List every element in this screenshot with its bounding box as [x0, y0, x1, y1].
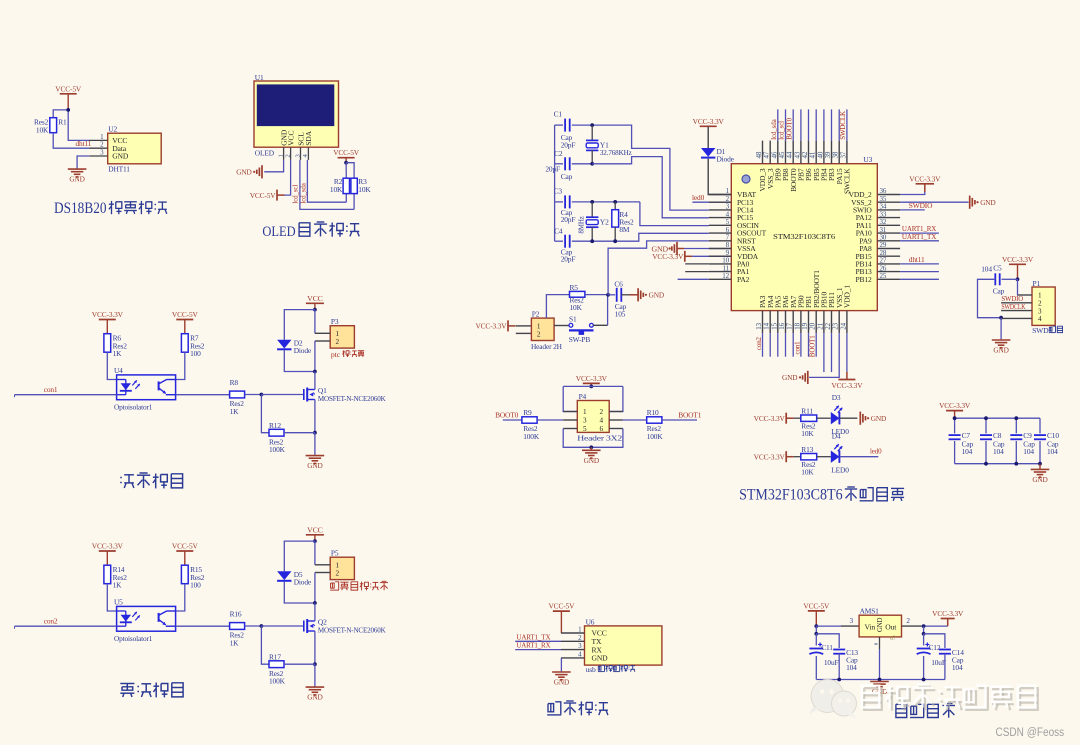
svg-text:6: 6 [600, 425, 604, 433]
svg-text:100K: 100K [647, 432, 664, 441]
svg-text:lcd_sda: lcd_sda [300, 182, 308, 203]
svg-text:VCC-3.3V: VCC-3.3V [754, 452, 786, 461]
svg-text:GND: GND [877, 617, 884, 632]
svg-text:3: 3 [1038, 307, 1042, 315]
svg-text:STM32F103C8T6: STM32F103C8T6 [739, 487, 843, 504]
svg-text:D4: D4 [832, 432, 841, 441]
svg-text:P2: P2 [532, 309, 540, 318]
svg-text:2: 2 [284, 154, 291, 157]
svg-text:GND: GND [1032, 475, 1047, 484]
svg-text:VCC-3.3V: VCC-3.3V [1002, 255, 1034, 264]
svg-text:C1: C1 [554, 110, 563, 119]
svg-text:C6: C6 [614, 280, 623, 289]
svg-text:R5: R5 [570, 283, 579, 292]
svg-text:led0: led0 [870, 447, 882, 455]
svg-text:GND: GND [236, 168, 251, 177]
svg-text:VCC-3.3V: VCC-3.3V [92, 310, 124, 319]
svg-text:U4: U4 [114, 366, 123, 375]
svg-text:Diode: Diode [717, 155, 735, 164]
svg-text:VCC-3.3V: VCC-3.3V [754, 414, 786, 423]
svg-text:SWCLK: SWCLK [843, 168, 852, 194]
svg-text:AMS1: AMS1 [860, 607, 880, 616]
svg-text:10K: 10K [801, 429, 814, 438]
svg-text:C12: C12 [929, 643, 941, 652]
svg-text:SWDCLK: SWDCLK [1001, 302, 1026, 311]
svg-text:con1: con1 [44, 385, 58, 394]
svg-text:10uF: 10uF [931, 658, 946, 667]
svg-text:1: 1 [1038, 292, 1042, 300]
svg-text:led0: led0 [692, 193, 705, 202]
svg-text:BOOT1: BOOT1 [678, 410, 702, 419]
svg-text:VCC-3.3V: VCC-3.3V [932, 609, 964, 618]
svg-text:104: 104 [1047, 447, 1058, 456]
svg-text:R16: R16 [230, 610, 242, 619]
svg-text:4: 4 [600, 417, 604, 425]
svg-text:GND: GND [69, 175, 84, 184]
svg-text:U5: U5 [114, 598, 123, 607]
svg-text:24: 24 [839, 322, 847, 329]
svg-text:VCC-3.3V: VCC-3.3V [475, 322, 507, 331]
svg-text:GND: GND [307, 461, 322, 470]
svg-text:GND: GND [782, 373, 797, 382]
svg-text:R9: R9 [523, 408, 532, 417]
svg-text:104: 104 [846, 663, 857, 672]
svg-text:VCC-5V: VCC-5V [250, 191, 277, 200]
svg-text:U2: U2 [108, 125, 117, 134]
svg-text:104: 104 [981, 264, 992, 273]
svg-text:VCC: VCC [286, 131, 295, 146]
svg-text:SW-PB: SW-PB [569, 335, 591, 344]
svg-text:2: 2 [537, 330, 541, 338]
svg-text:GND: GND [871, 414, 886, 423]
svg-text:25: 25 [880, 272, 887, 280]
svg-text:GND: GND [584, 456, 599, 465]
svg-text:2: 2 [1038, 300, 1042, 308]
svg-text:VCC: VCC [307, 525, 323, 534]
svg-text:100K: 100K [523, 432, 540, 441]
svg-text:UART1_RX: UART1_RX [516, 641, 551, 650]
svg-text:32.768KHz: 32.768KHz [600, 148, 633, 157]
svg-text:MOSFET-N-NCE2060K: MOSFET-N-NCE2060K [318, 625, 386, 634]
svg-text:BOOT0: BOOT0 [495, 410, 519, 419]
svg-text:OLED: OLED [262, 224, 295, 240]
svg-text:4: 4 [1038, 315, 1042, 323]
svg-text:VDD_1: VDD_1 [843, 285, 852, 308]
svg-text:12: 12 [722, 272, 729, 280]
svg-text:Optoisolator1: Optoisolator1 [114, 402, 153, 411]
svg-text:OLED: OLED [255, 149, 275, 158]
svg-text:20pF: 20pF [561, 215, 576, 224]
svg-text:VCC-5V: VCC-5V [803, 601, 830, 610]
svg-text:C5: C5 [993, 264, 1002, 273]
svg-text:VCC-3.3V: VCC-3.3V [576, 374, 608, 383]
svg-text:2: 2 [600, 408, 604, 416]
svg-text:10K: 10K [330, 185, 343, 194]
svg-text:32: 32 [880, 218, 887, 226]
svg-text:DS18B20: DS18B20 [54, 200, 107, 217]
svg-text:R12: R12 [269, 421, 281, 430]
svg-text:VCC-3.3V: VCC-3.3V [693, 117, 725, 126]
svg-text:usb: usb [586, 665, 596, 674]
svg-text:GND: GND [554, 678, 569, 687]
svg-text:C4: C4 [554, 227, 563, 236]
svg-text:P3: P3 [331, 317, 339, 326]
svg-text:lcd_scl: lcd_scl [292, 185, 300, 204]
svg-text:R8: R8 [230, 378, 239, 387]
svg-text:104: 104 [993, 447, 1004, 456]
svg-text:R10: R10 [647, 408, 659, 417]
svg-text:UART1_TX: UART1_TX [902, 232, 937, 241]
svg-text:D3: D3 [832, 393, 841, 402]
svg-text:Cap: Cap [561, 172, 573, 181]
svg-text:C11: C11 [821, 643, 833, 652]
svg-text:8M: 8M [619, 225, 630, 234]
svg-text:VCC: VCC [307, 294, 323, 303]
svg-text:GND: GND [307, 693, 322, 702]
svg-text:DHT11: DHT11 [108, 165, 130, 174]
svg-text:104: 104 [952, 663, 963, 672]
svg-text:10K: 10K [801, 467, 814, 476]
svg-text:SWDIO: SWDIO [909, 201, 933, 210]
svg-text:100K: 100K [269, 445, 286, 454]
svg-text:dht11: dht11 [909, 255, 925, 264]
svg-text:1K: 1K [113, 581, 123, 590]
svg-text:VCC-5V: VCC-5V [172, 542, 199, 551]
svg-text:PA2: PA2 [737, 275, 750, 284]
svg-text:2: 2 [906, 617, 910, 625]
svg-text:S1: S1 [569, 315, 577, 324]
svg-text:GND: GND [649, 291, 664, 300]
svg-text:Y2: Y2 [600, 217, 609, 226]
svg-text:R17: R17 [269, 653, 281, 662]
svg-text:U3: U3 [863, 155, 872, 164]
svg-text:100K: 100K [269, 677, 286, 686]
svg-text:VCC-5V: VCC-5V [55, 84, 82, 93]
svg-text:VCC-5V: VCC-5V [172, 310, 199, 319]
svg-text:105: 105 [615, 309, 626, 318]
svg-text:VCC-3.3V: VCC-3.3V [652, 252, 684, 261]
svg-text:R1: R1 [58, 118, 67, 127]
svg-text:1K: 1K [230, 638, 240, 647]
svg-text:VCC-3.3V: VCC-3.3V [831, 381, 863, 390]
svg-text:100: 100 [190, 581, 201, 590]
svg-text:100: 100 [190, 349, 201, 358]
svg-text:BOOT1: BOOT1 [809, 335, 817, 357]
svg-text:R13: R13 [801, 445, 813, 454]
svg-text:Out: Out [885, 622, 897, 631]
svg-text:VCC-5V: VCC-5V [333, 148, 360, 157]
svg-text:MOSFET-N-NCE2060K: MOSFET-N-NCE2060K [318, 394, 386, 403]
svg-text:3: 3 [583, 417, 587, 425]
svg-text:PB12: PB12 [856, 275, 872, 284]
svg-text:Diode: Diode [294, 346, 312, 355]
svg-text:20pF: 20pF [561, 255, 576, 264]
svg-text:VCC-3.3V: VCC-3.3V [92, 542, 124, 551]
svg-text:con1: con1 [793, 341, 801, 355]
svg-text:104: 104 [962, 447, 973, 456]
svg-text:GND: GND [980, 198, 995, 207]
svg-text:3: 3 [850, 617, 854, 625]
svg-text:SWD: SWD [1032, 326, 1049, 335]
svg-text:37: 37 [839, 151, 847, 158]
svg-text:10K: 10K [570, 303, 583, 312]
svg-text:104: 104 [1023, 447, 1034, 456]
svg-text:10K: 10K [358, 185, 371, 194]
svg-text:2: 2 [336, 570, 340, 578]
svg-text:Vin: Vin [865, 622, 876, 631]
svg-text:P1: P1 [1033, 279, 1041, 288]
svg-text:1: 1 [336, 330, 340, 338]
svg-text:SDA: SDA [304, 130, 313, 145]
svg-text:LED0: LED0 [831, 466, 849, 475]
svg-text:8MHz: 8MHz [578, 216, 586, 233]
svg-text:1K: 1K [230, 407, 240, 416]
svg-text:1: 1 [277, 154, 284, 157]
svg-text:Diode: Diode [294, 578, 312, 587]
svg-text:GND: GND [993, 346, 1008, 355]
svg-text:U6: U6 [586, 617, 595, 626]
svg-text:u?: u? [890, 635, 896, 642]
svg-text:con2: con2 [755, 336, 763, 350]
svg-text:C2: C2 [554, 149, 563, 158]
svg-text:10uF: 10uF [824, 658, 839, 667]
svg-text:5: 5 [583, 425, 587, 433]
svg-text:Header 3X2: Header 3X2 [577, 433, 622, 442]
svg-text:P4: P4 [579, 392, 587, 401]
svg-text:1: 1 [583, 408, 587, 416]
svg-text:STM32F103C8T6: STM32F103C8T6 [773, 232, 835, 241]
svg-text:con2: con2 [44, 616, 58, 625]
svg-text:1K: 1K [113, 349, 123, 358]
svg-text:R11: R11 [801, 406, 813, 415]
svg-text:GND: GND [112, 152, 129, 161]
svg-text:20pF: 20pF [561, 141, 576, 150]
svg-text:10K: 10K [36, 126, 49, 135]
svg-text:Optoisolator1: Optoisolator1 [114, 634, 153, 643]
svg-text:ptc: ptc [331, 350, 341, 359]
svg-text:VCC-3.3V: VCC-3.3V [939, 401, 971, 410]
svg-text:SWDCLK: SWDCLK [839, 111, 847, 140]
svg-text:CSDN @Feoss: CSDN @Feoss [996, 725, 1065, 739]
svg-text:BOOT0: BOOT0 [785, 117, 793, 139]
svg-text:20pF: 20pF [545, 165, 560, 174]
svg-text:GND: GND [592, 654, 609, 663]
svg-text:1: 1 [336, 562, 340, 570]
svg-text:VCC-3.3V: VCC-3.3V [909, 174, 941, 183]
svg-text:2: 2 [336, 338, 340, 346]
svg-text:VCC-5V: VCC-5V [549, 602, 576, 611]
svg-text:P5: P5 [331, 549, 339, 558]
svg-text:Header 2H: Header 2H [531, 342, 563, 351]
